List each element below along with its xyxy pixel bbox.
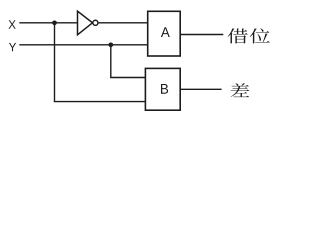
input label X bbox=[9, 20, 16, 28]
inverter G1 bubble bbox=[93, 20, 98, 25]
wire X branch down bbox=[54, 23, 56, 102]
label B bbox=[161, 84, 168, 94]
wire Y branch to B upper input bbox=[110, 77, 145, 79]
wire box B output bbox=[180, 88, 221, 90]
output label 借位 (borrow) char 借 bbox=[228, 28, 248, 43]
wire Y branch down bbox=[110, 45, 112, 78]
output label 差 (difference) bbox=[231, 83, 250, 97]
input label Y bbox=[9, 43, 16, 51]
wire Y input to box A lower input bbox=[19, 44, 147, 46]
output label 借位 (borrow) char 位 bbox=[250, 28, 270, 43]
wire inverter output to box A upper input bbox=[98, 22, 148, 24]
junction on X line bbox=[52, 20, 57, 25]
label A bbox=[161, 27, 170, 37]
box B (difference gate) bbox=[145, 68, 180, 110]
box A (borrow gate) bbox=[148, 11, 181, 56]
inverter G1 (NOT gate) triangle bbox=[78, 11, 93, 35]
junction on Y line bbox=[108, 42, 113, 47]
wire X branch to B lower input bbox=[54, 101, 146, 103]
wire box A output bbox=[180, 34, 223, 36]
wire X input to inverter bbox=[19, 22, 77, 24]
